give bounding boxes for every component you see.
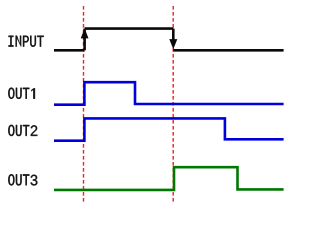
wire INPUT low-right segment [173, 49, 283, 52]
wire OUT1 waveform: low, rise at t1, short pulse, fall, low to right edge [54, 82, 284, 105]
arrow up at INPUT rising edge [81, 28, 89, 38]
arrow down at INPUT falling edge [169, 39, 177, 49]
label INPUT [9, 36, 44, 47]
label OUT1 [8, 88, 35, 99]
wire OUT2 waveform: low, rise at t1, long high, fall after t2, low to right edge [54, 118, 284, 140]
label OUT3 [8, 174, 37, 185]
label OUT2 [8, 125, 37, 136]
wire INPUT low-left segment [54, 49, 85, 52]
timing reference line t1 (red dashed, first input edge) [83, 6, 85, 203]
wire OUT3 waveform: low, rise at t2, pulse, fall, low to right edge [54, 167, 284, 190]
timing reference line t2 (red dashed, second input edge) [172, 6, 174, 203]
wire INPUT rising edge at t1 [83, 29, 86, 51]
wire INPUT high segment [85, 27, 174, 30]
wire INPUT falling edge at t2 [172, 29, 175, 44]
